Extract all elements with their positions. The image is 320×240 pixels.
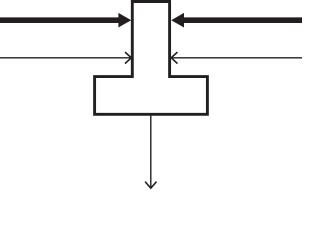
downward reaction arrow shaft xyxy=(150,115,152,188)
thin left arrowhead barbs xyxy=(126,53,132,64)
thin right arrowhead barbs xyxy=(171,53,177,64)
inverted-T block outline xyxy=(95,2,208,115)
thin right arrow shaft xyxy=(171,57,302,59)
downward reaction arrowhead barbs xyxy=(146,182,157,188)
thin left arrow shaft xyxy=(0,57,131,59)
thick right force arrow shaft xyxy=(184,17,302,23)
thick right force arrowhead xyxy=(171,13,184,28)
thick left force arrowhead xyxy=(118,13,131,28)
thick left force arrow shaft xyxy=(0,17,119,23)
